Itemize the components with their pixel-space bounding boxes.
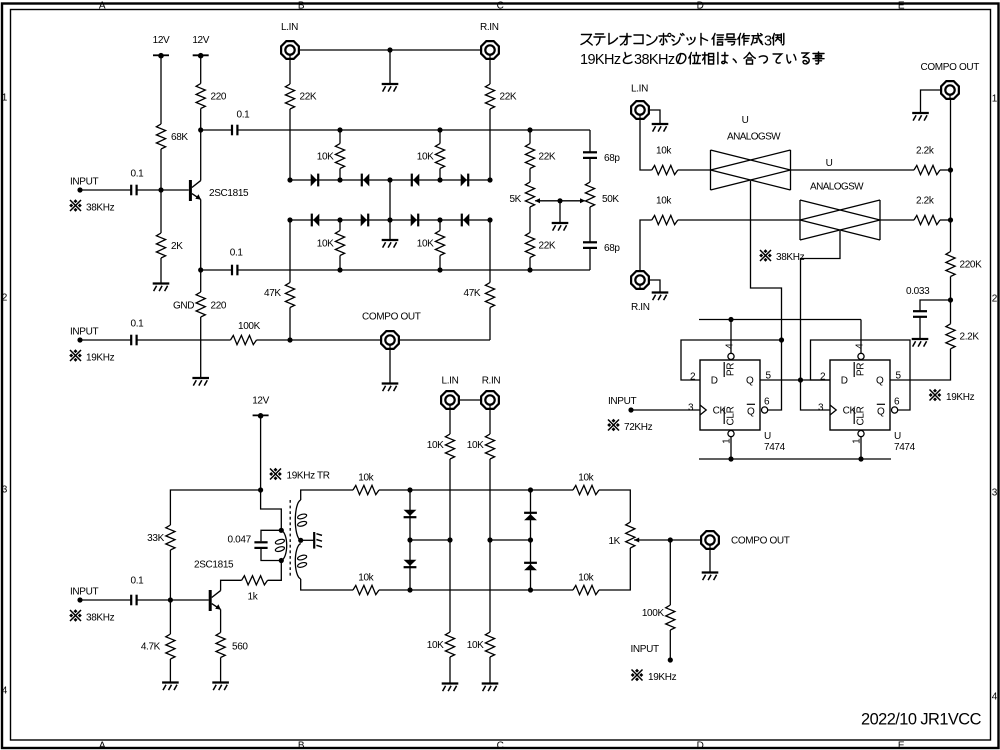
wire L.IN to 10k [640,120,652,170]
resistor 10K (ring 2) [435,144,444,169]
wire 2.2k to compo bus 2 [940,219,951,221]
resistor 10K (R upper) [485,434,494,459]
node row2 L [287,217,292,222]
svg-text:3: 3 [688,402,694,413]
wire mid R link [490,539,531,541]
terminal INPUT 72KHz [628,407,633,412]
svg-text:6: 6 [894,396,900,407]
resistor 10k (bottom right) [573,585,599,594]
svg-text:3: 3 [764,33,772,49]
diode D8 [462,214,470,227]
wire R jack down [489,410,491,434]
wire compo2 jack down [950,100,952,170]
capacitor 0.033 [913,311,927,317]
clear bubble U2 [858,431,864,437]
wire diode col L lower [409,540,411,590]
title line 1: stereo composite 3 examples [581,33,784,49]
wire bus to 22K top [529,130,531,144]
svg-text:3: 3 [818,402,824,413]
wire 12V down [260,415,262,490]
wire L jack down [449,410,451,434]
wire 12V to 68K [160,55,162,124]
wire row2 to 10K-4 [439,220,441,231]
junction wiper out [668,537,673,542]
wire L.IN to R.IN [300,49,481,51]
jack COMPO OUT (circuit1) [381,331,399,349]
wire cap branch bottom [261,549,281,561]
wire node to 2.2K [950,300,952,324]
ground (L divider) [442,684,459,692]
svg-text:0.1: 0.1 [131,319,145,330]
svg-text:2.2k: 2.2k [916,196,935,207]
svg-text:1: 1 [721,438,732,444]
wire secondary top lead [301,490,353,500]
junction compo node [287,337,292,342]
wire collector to node [200,130,202,181]
analog switch U ANALOGSW (SW1) [711,150,791,190]
wiper 1K arrow [634,538,671,543]
svg-text:R.IN: R.IN [631,302,650,313]
svg-text:D: D [697,0,704,11]
svg-text:0.1: 0.1 [237,110,251,121]
svg-text:560: 560 [232,642,248,653]
node row1 mid [387,177,392,182]
svg-text:12V: 12V [153,35,170,46]
wire wiper node to 100K [669,540,671,605]
transformer core [289,500,291,577]
wire 10K-3 to bus [339,256,341,271]
svg-text:220K: 220K [960,260,983,271]
title line 2: 19KHz and 38KHz phase must match [580,52,824,68]
junction base node [158,187,163,192]
junction compo bus 1 [948,167,953,172]
terminal INPUT 19KHz (osc mix) [668,657,673,662]
wire mid to 10K L lower [449,540,451,632]
svg-text:A: A [99,740,106,750]
svg-text:B: B [298,0,305,11]
diode D3 [412,174,420,187]
junction emitter node [198,267,203,272]
resistor 68K [156,124,165,149]
svg-text:68p: 68p [604,153,620,164]
ground (ring center) [382,240,399,248]
clear pin wire U2 [860,437,862,459]
clear rail [699,458,891,460]
ground (L.IN c2) [652,124,669,132]
wire input to 0.1 [80,339,131,341]
svg-text:4: 4 [992,692,998,703]
svg-text:4: 4 [2,686,8,697]
transformer secondary lower winding [295,544,307,580]
capacitor 0.1 (38KHz input) [131,185,136,196]
wire 22K bottom to bus [529,258,531,271]
jack COMPO OUT (circuit2) [941,81,959,99]
wire jack ground [389,350,391,384]
wire 33K to base node [169,550,171,600]
wire Q1 to D2 [760,379,830,381]
reference mark (19KHz input) [69,349,82,362]
wire top bus to 1K [599,490,630,522]
resistor 33K [166,525,175,550]
svg-text:10k: 10k [358,573,374,584]
svg-text:B: B [298,740,305,750]
wire compo3 ground [709,550,711,573]
ground (wiper) [552,223,569,231]
svg-text:7474: 7474 [764,442,786,453]
wire row2 L down [289,220,291,283]
svg-text:72KHz: 72KHz [624,422,653,433]
wire input to 0.1 (osc) [80,599,131,601]
svg-text:L.IN: L.IN [281,22,298,33]
svg-text:220: 220 [211,92,227,103]
ground (0.033) [912,339,929,347]
junction bus 10K-4 [437,267,442,272]
ground (4.7K) [162,683,179,691]
wire wiper to jack [670,539,700,541]
svg-text:220: 220 [211,301,227,312]
wire 22K to 5K [529,169,531,183]
resistor 2K [156,233,165,258]
junction collector node [198,127,203,132]
preset pin wire U1 [730,320,732,354]
wire mid L link [410,539,450,541]
reference mark (38KHz input) [69,199,82,212]
wire 47K L to compo [289,308,291,341]
svg-text:Q: Q [876,375,884,386]
svg-text:1: 1 [851,438,862,444]
svg-text:19KHz: 19KHz [648,672,677,683]
svg-text:2: 2 [690,371,696,382]
svg-text:COMPO OUT: COMPO OUT [362,312,421,323]
reference mark (19KHz mix) [631,669,644,682]
resistor 2.2k (SW2 out) [914,215,940,224]
resistor 220K [946,252,955,277]
wire 10k to SW2 [678,219,800,221]
12V power symbol (220 collector) [193,53,209,59]
resistor 220 (collector) [196,84,205,109]
svg-text:PR: PR [856,363,867,376]
diode D2 [362,174,370,187]
wire 4.7K to ground [169,659,171,683]
junction matrix bot R [528,587,533,592]
wire 0.1 cap to base [137,189,189,191]
resistor 10K (L lower) [445,632,454,657]
preset pin wire U2 [860,320,862,354]
wiper 5K-50K with arrows [535,198,586,203]
diode D4 [461,174,469,187]
wire emitter node to cap [201,269,232,271]
jack L.IN (circuit3) [441,391,459,409]
reference mark (19KHz TR) [269,468,282,481]
analog switch U ANALOGSW (SW2) [800,200,880,240]
svg-text:2: 2 [992,294,998,305]
svg-text:10k: 10k [358,472,374,483]
reference mark (38KHz control) [759,249,772,262]
node row2 b [437,217,442,222]
svg-text:C: C [497,0,504,11]
wire 100K to node [257,339,291,341]
wire 2K to ground [160,258,162,284]
clear bubble U1 [728,431,734,437]
svg-text:INPUT: INPUT [608,396,636,407]
node row2 mid [387,217,392,222]
svg-text:4.7K: 4.7K [141,642,161,653]
svg-text:INPUT: INPUT [70,177,98,188]
resistor 22K (L) [285,84,294,109]
wire 0.1 to 100K [137,339,231,341]
wire SW1 to 2.2k [791,169,915,171]
node row2 R [487,217,492,222]
terminal INPUT 38KHz (osc) [77,597,82,602]
wire bus to 10K-1 [339,130,341,144]
preset rail [699,319,861,321]
ground (2K) [153,284,170,292]
svg-text:10k: 10k [578,472,594,483]
wire 220K to node [950,277,952,301]
svg-text:10K: 10K [317,152,334,163]
pin name PR U1 [724,362,736,377]
wire D1 feedback [681,340,782,380]
jack L.IN (circuit2) [631,101,649,119]
svg-text:3: 3 [2,485,8,496]
wire compo2 gnd stub [921,90,941,113]
svg-text:12V: 12V [252,396,269,407]
resistor 10K (ring 1) [335,144,344,169]
ground (compo jack 1) [382,384,399,392]
wire 5K to 22K bottom [529,207,531,233]
ground (compo jack 3) [702,573,719,581]
svg-text:CLR: CLR [856,406,867,425]
wire ring center column [389,180,391,240]
svg-text:Q: Q [747,406,755,417]
wire L.IN gnd stub [650,110,660,124]
svg-text:10K: 10K [417,239,434,250]
svg-text:2.2K: 2.2K [960,332,980,343]
resistor 100K (19KHz inject) [666,605,675,630]
wire bus to 220K [950,170,952,252]
junction feedback SW1 [779,337,784,342]
junction base node Q2 [168,597,173,602]
wire 10K R lower to gnd [489,657,491,684]
ground (R.IN c2) [652,293,669,301]
svg-text:33K: 33K [147,533,164,544]
svg-text:2SC1815: 2SC1815 [209,188,249,199]
op-amp box 7474 U2 [830,360,890,430]
wire wiper to ground [559,201,561,223]
clear pin wire U1 [730,437,732,459]
bus matrix top [379,489,573,491]
jack R.IN (circuit1) [481,41,499,59]
svg-text:Q: Q [877,406,885,417]
svg-text:2SC1815: 2SC1815 [194,560,234,571]
junction mid L [407,537,412,542]
wire 68p to 50K [589,158,591,182]
transistor 2SC1815 Q2 [210,590,221,611]
wire 10K L to mid [449,459,451,540]
resistor 4.7K [166,634,175,659]
svg-text:U: U [742,115,749,126]
svg-text:12V: 12V [192,35,209,46]
svg-text:47K: 47K [464,288,481,299]
wire 10K-1 to row1 [339,169,341,181]
pin name CLR U2 [854,406,866,425]
12V power symbol (oscillator) [253,413,269,419]
svg-text:CLR: CLR [726,406,737,425]
svg-text:A: A [99,0,106,11]
svg-text:R.IN: R.IN [482,376,501,387]
preset bubble U2 [858,353,864,359]
svg-text:L.IN: L.IN [631,84,648,95]
wire input 72KHz to CK1 [631,409,700,411]
resistor 10K (ring 3) [335,231,344,256]
svg-text:19KHz TR: 19KHz TR [287,471,330,482]
pin name PR U2 [854,362,866,377]
svg-text:6: 6 [764,396,770,407]
svg-text:10K: 10K [467,640,484,651]
svg-text:7474: 7474 [894,442,916,453]
svg-text:D: D [697,740,704,750]
resistor 22K (top filter) [525,144,534,169]
junction matrix top L [407,487,412,492]
junction clear rail U2 [858,456,863,461]
svg-text:38KHz: 38KHz [776,252,805,263]
clock wedge U1 [700,405,706,415]
junction preset rail U1 [728,317,733,322]
reference mark (19KHz out) [929,389,942,402]
svg-text:10k: 10k [656,196,672,207]
transformer primary winding [275,530,287,560]
wire 47K R to compo [489,308,491,341]
ground (R divider) [482,684,499,692]
wire 560 to ground [220,658,222,683]
potentiometer 5K [525,182,534,207]
wire SW2 to 2.2k [880,219,914,221]
diode D7 [411,214,419,227]
svg-text:10K: 10K [467,440,484,451]
capacitor 0.1 (emitter coupling) [232,265,237,276]
control wire SW2 38KHz [801,231,841,410]
wire between jacks [460,399,481,401]
control wire SW1 from Q1-bar [751,181,782,340]
svg-text:INPUT: INPUT [70,327,98,338]
svg-text:1k: 1k [248,592,259,603]
svg-text:100K: 100K [238,321,261,332]
wire diode col L [409,490,411,540]
junction compo bus 2 [948,217,953,222]
svg-text:68p: 68p [604,243,620,254]
wire diode col R [530,490,532,540]
wire 0.1 to base Q2 [137,599,209,601]
junction bus 22K top [527,127,532,132]
resistor 10k (R c2) [652,215,678,224]
preset bubble U1 [728,353,734,359]
wire bus to 10K-2 [439,130,441,144]
wire ground tap [389,50,391,84]
wire supply to primary [261,490,282,530]
resistor 100K (19KHz mix) [231,335,257,344]
wire 10K L lower to gnd [449,657,451,684]
junction bus 22K bottom [527,267,532,272]
resistor 10k (top right) [573,485,599,494]
junction mid R jack [487,537,492,542]
ground (emitter 220) [192,378,209,386]
svg-text:0.033: 0.033 [906,286,930,297]
resistor 220 (GND) [196,292,205,317]
wire cap branch top [261,530,281,541]
ground (center tap) [314,532,322,549]
reference mark (72KHz input) [607,419,620,432]
resistor 2.2K (divider) [946,324,955,349]
capacitor 68p (bottom) [583,242,597,248]
svg-text:22K: 22K [539,152,556,163]
junction Q1-D2 net [798,377,803,382]
svg-text:2K: 2K [171,241,183,252]
wire jack to 47K R [399,339,490,341]
capacitor 0.1 (osc input) [131,595,136,606]
resistor 10k (L c2) [652,165,678,174]
junction mid L jack [447,537,452,542]
svg-text:10K: 10K [427,440,444,451]
wire R.IN gnd stub [650,280,660,293]
wire row2 to 10K-3 [339,220,341,231]
diode D11 [524,513,537,521]
pin name Qbar U1 [747,404,755,417]
junction wiper ground [557,198,562,203]
resistor 10k (top left) [353,485,379,494]
svg-text:0.047: 0.047 [228,534,252,545]
wire center tap stub [301,539,314,541]
svg-text:1K: 1K [608,536,620,547]
node row2 a [337,217,342,222]
junction clear rail U1 [728,456,733,461]
wire supply to 33K [170,490,260,525]
junction bus 10K-3 [337,267,342,272]
wire D2 feedback [811,340,911,410]
wire 220 to collector node [200,109,202,131]
node row1 a [337,177,342,182]
wire bus corner to 68p top [589,130,591,152]
svg-text:4: 4 [724,343,735,349]
diode D1 [311,174,319,187]
wire collector node to cap [201,129,232,131]
svg-text:U: U [764,431,771,442]
terminal INPUT 38KHz [77,187,82,192]
svg-text:19KHz: 19KHz [86,353,115,364]
svg-text:U: U [894,431,901,442]
svg-text:10k: 10k [578,573,594,584]
diode D9 [404,510,417,518]
junction osc supply node [258,487,263,492]
svg-text:COMPO OUT: COMPO OUT [731,536,790,547]
svg-text:ANALOGSW: ANALOGSW [727,132,781,143]
junction matrix bot L [407,587,412,592]
resistor 47K (L) [285,283,294,308]
wire 10k to SW1 [678,169,711,171]
capacitor 0.047 [254,542,267,548]
Qbar bubble U2 [892,407,898,413]
svg-text:U: U [826,158,833,169]
wire row2 R down [489,220,491,283]
svg-text:R.IN: R.IN [480,22,499,33]
wire R.IN to 22K [489,60,491,84]
jack R.IN (circuit2) [631,271,649,289]
junction secondary center tap [298,538,303,543]
svg-text:38KHz: 38KHz [86,203,115,214]
12V power symbol (68K bias) [153,53,169,59]
wire node to 0.033 [920,300,951,311]
wire 0.033 to ground [919,317,921,339]
junction primary bottom [279,558,284,563]
